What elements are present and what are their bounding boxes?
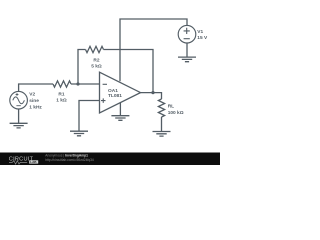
ground at noninverting input: [70, 131, 88, 136]
svg-text:sine: sine: [29, 98, 39, 104]
svg-text:5 kΩ: 5 kΩ: [91, 63, 102, 69]
svg-text:R1: R1: [58, 92, 64, 98]
wire V2 bottom to ground: [18, 109, 20, 123]
wire op-amp negative supply pin: [119, 103, 121, 116]
footer attribution text: [45, 154, 94, 162]
V2 minus mark: [16, 105, 20, 107]
svg-text:LAB: LAB: [30, 160, 37, 164]
wire op-amp power pin to supply rail: [120, 19, 187, 81]
wire op-amp noninverting input: [79, 101, 100, 132]
label R2: [91, 58, 102, 70]
op-amp plus sign: [101, 98, 106, 103]
node junction after R1: [76, 82, 79, 85]
svg-text:TL081: TL081: [108, 93, 122, 99]
wire feedback up and across: [78, 50, 86, 85]
node junction at output: [151, 91, 154, 94]
svg-text:100 kΩ: 100 kΩ: [168, 110, 184, 116]
svg-text:15 V: 15 V: [197, 35, 208, 41]
resistor RL: [158, 99, 164, 117]
ground under RL: [153, 132, 171, 137]
resistor R2: [86, 46, 104, 52]
V1 plus mark: [184, 28, 190, 34]
svg-text:V1: V1: [197, 29, 203, 35]
V2 sine wave: [13, 97, 25, 104]
ground under V2: [10, 123, 28, 128]
label R1: [56, 92, 67, 104]
svg-text:OA1: OA1: [108, 88, 118, 94]
ground under V1: [178, 57, 196, 62]
label OA1: [108, 88, 122, 99]
voltage source V1 circle: [178, 25, 196, 43]
label V1: [197, 29, 208, 41]
resistor R1: [53, 81, 71, 87]
wire op-amp output: [141, 93, 162, 99]
wire RL to ground: [161, 117, 163, 132]
svg-text:R2: R2: [93, 58, 99, 64]
label V2: [29, 92, 42, 111]
svg-text:V2: V2: [29, 92, 35, 98]
label RL: [168, 104, 184, 117]
voltage source V2 circle: [10, 91, 28, 109]
svg-text:1 kΩ: 1 kΩ: [56, 98, 67, 104]
wire R2 to output node: [104, 50, 154, 93]
wire V2 top to R1: [19, 84, 53, 92]
svg-text:http://circuitlab.com/c/59zd24: http://circuitlab.com/c/59zd24fq34: [45, 158, 94, 162]
footer CircuitLab logo: [9, 156, 38, 164]
footer bar: [0, 153, 220, 166]
svg-text:1 kHz: 1 kHz: [29, 104, 42, 110]
svg-text:RL: RL: [168, 104, 174, 110]
ground under op-amp: [111, 116, 129, 121]
V1 minus mark: [184, 38, 190, 40]
op-amp minus sign: [103, 83, 107, 85]
wire R1 to op-amp inverting input: [71, 83, 100, 85]
V2 plus mark: [16, 93, 19, 96]
op-amp OA1 triangle: [100, 72, 141, 113]
wire V1 bottom to ground: [186, 43, 188, 57]
